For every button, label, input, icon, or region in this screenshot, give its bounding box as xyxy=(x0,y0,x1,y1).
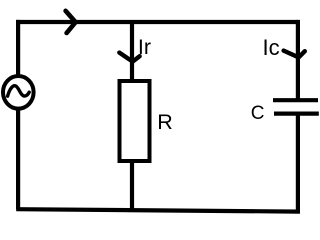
resistor R xyxy=(120,81,150,161)
arrow Ic (pointing down) xyxy=(284,51,305,58)
wire right vertical lower xyxy=(296,114,300,214)
wire resistor branch lower xyxy=(130,161,134,210)
wire resistor branch upper xyxy=(130,22,134,81)
wire right vertical upper xyxy=(296,20,300,100)
capacitor C bottom plate xyxy=(274,111,319,115)
wire left vertical lower xyxy=(16,108,20,209)
capacitor C top plate xyxy=(273,98,318,102)
wire top horizontal xyxy=(16,20,298,24)
label Ic xyxy=(263,37,280,59)
label R xyxy=(157,112,173,134)
wire left vertical upper xyxy=(16,20,20,77)
label Ir xyxy=(138,37,151,59)
label C xyxy=(251,104,265,123)
arrow Ir (pointing down) xyxy=(119,53,139,62)
wire bottom horizontal xyxy=(16,209,300,211)
arrow current source (top wire, pointing right) xyxy=(66,11,76,33)
AC source V1 xyxy=(3,76,34,109)
